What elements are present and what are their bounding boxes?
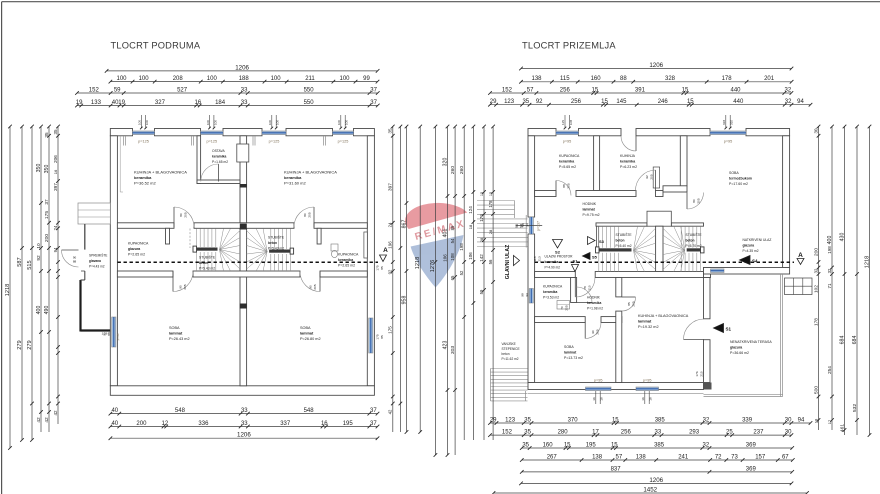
svg-text:beton: beton	[268, 241, 277, 245]
svg-text:178: 178	[722, 76, 733, 82]
svg-text:188: 188	[239, 76, 250, 82]
svg-text:256: 256	[560, 87, 571, 93]
svg-text:490: 490	[44, 306, 50, 315]
svg-text:123: 123	[505, 417, 516, 423]
svg-text:200: 200	[136, 421, 147, 427]
svg-text:p=125: p=125	[138, 140, 149, 144]
svg-text:260: 260	[450, 166, 456, 175]
svg-text:138: 138	[592, 454, 603, 460]
svg-text:glazura: glazura	[128, 247, 140, 251]
svg-text:100: 100	[268, 120, 272, 125]
svg-text:184: 184	[215, 100, 226, 106]
svg-text:15: 15	[611, 442, 618, 448]
svg-text:175: 175	[388, 326, 393, 334]
svg-text:100: 100	[206, 120, 210, 125]
svg-text:98: 98	[521, 293, 525, 297]
svg-text:400: 400	[36, 306, 42, 315]
svg-text:P=31.60 m2: P=31.60 m2	[284, 181, 306, 186]
svg-text:beton: beton	[616, 239, 625, 243]
svg-text:100: 100	[337, 120, 341, 125]
svg-text:80: 80	[692, 199, 696, 203]
svg-text:350: 350	[36, 164, 42, 173]
svg-text:370: 370	[568, 417, 579, 423]
svg-text:196: 196	[388, 241, 393, 249]
svg-text:59: 59	[479, 289, 484, 294]
svg-text:108: 108	[450, 253, 455, 261]
svg-text:33: 33	[241, 87, 248, 93]
svg-text:260: 260	[459, 166, 465, 175]
svg-text:p=125: p=125	[338, 140, 349, 144]
svg-text:59: 59	[114, 87, 121, 93]
svg-text:256: 256	[571, 99, 582, 105]
svg-text:205: 205	[650, 174, 654, 179]
svg-text:32: 32	[813, 268, 818, 273]
svg-text:133: 133	[91, 100, 102, 106]
svg-text:P=5.65 m2: P=5.65 m2	[559, 165, 576, 169]
svg-text:100: 100	[145, 120, 149, 125]
svg-text:90: 90	[103, 332, 107, 336]
svg-text:35: 35	[522, 442, 529, 448]
svg-text:201: 201	[764, 76, 775, 82]
svg-text:1218: 1218	[5, 284, 11, 297]
svg-text:100: 100	[339, 76, 350, 82]
svg-text:267: 267	[547, 454, 558, 460]
svg-text:laminat: laminat	[638, 320, 652, 324]
svg-text:94: 94	[797, 99, 804, 105]
svg-text:205: 205	[308, 212, 312, 217]
svg-text:33: 33	[241, 100, 248, 106]
svg-text:88: 88	[562, 184, 566, 188]
svg-text:18: 18	[468, 224, 473, 229]
svg-text:423: 423	[442, 341, 448, 350]
svg-text:15: 15	[564, 442, 571, 448]
svg-text:430: 430	[839, 233, 845, 242]
svg-text:35: 35	[524, 417, 531, 423]
svg-text:336: 336	[198, 421, 209, 427]
svg-text:15: 15	[601, 99, 608, 105]
svg-text:P=9.75 m2: P=9.75 m2	[583, 213, 600, 217]
svg-text:SPREMIŠTE: SPREMIŠTE	[89, 253, 107, 258]
svg-text:176: 176	[479, 214, 484, 222]
svg-text:KUPAONICA: KUPAONICA	[128, 242, 149, 246]
svg-text:205: 205	[596, 329, 600, 334]
svg-text:KUHINJA + BLAGOVAONICA: KUHINJA + BLAGOVAONICA	[284, 170, 337, 175]
svg-text:328: 328	[665, 76, 676, 82]
svg-text:42: 42	[44, 417, 50, 423]
svg-text:102: 102	[813, 285, 819, 293]
svg-text:213: 213	[537, 256, 541, 261]
svg-text:160: 160	[543, 442, 554, 448]
svg-text:NATKRIVENI ULAZ: NATKRIVENI ULAZ	[743, 238, 772, 242]
svg-text:30: 30	[785, 417, 792, 423]
svg-text:24: 24	[53, 225, 58, 230]
svg-text:279: 279	[17, 340, 23, 349]
svg-text:100: 100	[207, 76, 218, 82]
svg-text:SOBA: SOBA	[169, 326, 180, 330]
svg-text:527: 527	[177, 87, 188, 93]
svg-text:515: 515	[27, 260, 33, 269]
svg-text:205: 205	[184, 212, 188, 217]
svg-text:33: 33	[655, 430, 662, 436]
svg-text:laminat: laminat	[583, 208, 596, 212]
svg-text:beton: beton	[686, 239, 695, 243]
svg-text:1218: 1218	[864, 256, 870, 269]
svg-text:29: 29	[490, 417, 497, 423]
svg-text:200: 200	[813, 248, 819, 257]
svg-text:A: A	[798, 252, 803, 259]
svg-text:keramika: keramika	[559, 160, 574, 164]
svg-text:18: 18	[813, 418, 818, 423]
svg-text:25: 25	[726, 430, 733, 436]
svg-text:S1: S1	[726, 327, 732, 332]
svg-text:124: 124	[468, 206, 473, 214]
svg-text:16: 16	[321, 421, 328, 427]
svg-text:90: 90	[591, 330, 595, 334]
svg-text:100: 100	[276, 120, 280, 125]
svg-text:108: 108	[569, 120, 573, 125]
svg-text:339: 339	[742, 417, 753, 423]
svg-text:100: 100	[138, 120, 142, 125]
svg-text:19: 19	[118, 100, 125, 106]
svg-text:1206: 1206	[237, 432, 251, 439]
svg-text:keramika: keramika	[587, 301, 601, 305]
svg-text:205: 205	[632, 301, 636, 306]
svg-text:461: 461	[839, 424, 845, 433]
svg-text:P=4.43 m2: P=4.43 m2	[89, 265, 105, 269]
svg-text:246: 246	[658, 99, 669, 105]
svg-text:401: 401	[442, 229, 448, 238]
svg-text:65: 65	[450, 275, 455, 280]
svg-text:175: 175	[44, 211, 50, 220]
svg-text:HODNIK: HODNIK	[583, 202, 597, 206]
svg-text:P=26.80 m2: P=26.80 m2	[300, 337, 321, 341]
svg-text:205: 205	[313, 284, 317, 289]
svg-text:54: 54	[450, 238, 455, 243]
svg-text:STUBIŠTE: STUBIŠTE	[268, 235, 285, 240]
svg-text:glavana: glavana	[89, 259, 101, 263]
svg-text:keramika: keramika	[212, 155, 226, 159]
svg-text:205: 205	[697, 198, 701, 203]
svg-text:550: 550	[304, 100, 315, 106]
svg-text:279: 279	[27, 340, 33, 349]
svg-text:1206: 1206	[649, 477, 663, 484]
svg-text:laminat: laminat	[169, 332, 183, 336]
svg-text:NENATKRIVENA TERASA: NENATKRIVENA TERASA	[730, 340, 772, 344]
svg-text:S3: S3	[599, 239, 605, 244]
svg-text:198: 198	[827, 246, 832, 254]
svg-text:52: 52	[459, 270, 464, 275]
svg-text:206: 206	[53, 155, 59, 163]
svg-text:320: 320	[442, 158, 448, 167]
svg-text:35: 35	[522, 99, 529, 105]
svg-text:p=95: p=95	[643, 378, 652, 382]
svg-text:532: 532	[852, 404, 858, 413]
svg-text:400: 400	[827, 236, 833, 245]
svg-text:p=125: p=125	[206, 140, 217, 144]
svg-text:P=26.43 m2: P=26.43 m2	[169, 337, 190, 341]
svg-text:318: 318	[722, 120, 726, 125]
svg-text:35: 35	[524, 430, 531, 436]
svg-text:1276: 1276	[430, 260, 436, 273]
svg-text:397: 397	[53, 183, 59, 191]
svg-text:P=1.65 m2: P=1.65 m2	[212, 160, 228, 164]
svg-text:33: 33	[241, 421, 248, 427]
svg-text:keramika: keramika	[284, 175, 302, 180]
svg-text:78: 78	[583, 286, 587, 290]
svg-text:98: 98	[515, 224, 519, 228]
svg-text:67: 67	[782, 454, 789, 460]
svg-text:16: 16	[641, 397, 645, 401]
svg-text:550: 550	[304, 87, 315, 93]
svg-text:30: 30	[813, 128, 818, 134]
svg-text:118: 118	[533, 256, 537, 261]
svg-text:200: 200	[44, 234, 50, 243]
svg-text:OSTAVA: OSTAVA	[212, 149, 225, 153]
svg-text:280: 280	[558, 430, 569, 436]
svg-text:28: 28	[479, 237, 484, 242]
svg-text:keramika: keramika	[338, 258, 353, 262]
svg-text:254: 254	[827, 366, 833, 374]
svg-text:STUBIŠTE: STUBIŠTE	[686, 232, 703, 237]
svg-text:32: 32	[703, 442, 710, 448]
svg-text:SOBA: SOBA	[729, 171, 739, 175]
svg-text:391: 391	[635, 87, 646, 93]
svg-text:STUBIŠTE: STUBIŠTE	[616, 232, 633, 237]
svg-text:837: 837	[611, 466, 622, 472]
svg-text:laminat: laminat	[564, 351, 577, 355]
svg-text:19: 19	[76, 100, 83, 106]
svg-text:VANJSKE: VANJSKE	[502, 342, 516, 346]
svg-text:40: 40	[111, 421, 118, 427]
svg-text:S5: S5	[592, 255, 598, 260]
svg-text:laminat: laminat	[300, 332, 314, 336]
svg-text:145: 145	[616, 99, 627, 105]
svg-text:684: 684	[852, 336, 858, 345]
svg-text:16: 16	[592, 397, 596, 401]
svg-text:1206: 1206	[649, 62, 663, 69]
svg-text:80: 80	[179, 213, 183, 217]
svg-text:1452: 1452	[643, 486, 657, 493]
svg-text:152: 152	[89, 87, 100, 93]
svg-text:175: 175	[376, 334, 380, 339]
svg-text:15: 15	[489, 192, 493, 196]
svg-text:440: 440	[730, 87, 741, 93]
svg-text:P=3.53 m2: P=3.53 m2	[543, 296, 559, 300]
svg-text:176: 176	[695, 371, 699, 376]
svg-text:138: 138	[531, 76, 542, 82]
svg-text:57: 57	[616, 454, 623, 460]
svg-text:beton: beton	[502, 352, 510, 356]
svg-text:92: 92	[36, 255, 42, 261]
svg-text:208: 208	[173, 76, 184, 82]
svg-text:P=11.62 m2: P=11.62 m2	[502, 357, 519, 361]
svg-text:15: 15	[480, 192, 484, 196]
svg-text:92: 92	[388, 269, 393, 274]
svg-text:33: 33	[241, 408, 248, 414]
svg-text:16: 16	[600, 397, 604, 401]
svg-text:198: 198	[459, 243, 464, 251]
svg-text:369: 369	[746, 466, 757, 472]
svg-text:p=95: p=95	[563, 140, 572, 144]
svg-text:58: 58	[521, 223, 525, 227]
svg-text:100: 100	[116, 76, 127, 82]
svg-text:keramika: keramika	[545, 260, 559, 264]
svg-text:32: 32	[785, 87, 792, 93]
svg-text:178: 178	[488, 200, 493, 208]
svg-text:115: 115	[560, 76, 570, 82]
svg-text:p=137: p=137	[537, 221, 541, 231]
svg-text:37: 37	[370, 100, 377, 106]
svg-text:94: 94	[53, 247, 58, 252]
svg-text:keramika: keramika	[543, 290, 557, 294]
svg-text:94: 94	[798, 417, 805, 423]
svg-text:glazura: glazura	[730, 346, 742, 350]
svg-text:684: 684	[839, 336, 845, 345]
svg-text:80: 80	[303, 213, 307, 217]
svg-text:KUHINJA + BLAGOVAONICA: KUHINJA + BLAGOVAONICA	[134, 170, 187, 175]
svg-text:ULAZNI PROSTOR: ULAZNI PROSTOR	[545, 255, 574, 259]
svg-text:73: 73	[731, 454, 738, 460]
svg-text:P=17.60 m2: P=17.60 m2	[729, 182, 748, 186]
svg-text:17: 17	[827, 419, 832, 424]
svg-text:106: 106	[442, 254, 447, 262]
svg-text:88: 88	[620, 76, 627, 82]
svg-text:500: 500	[813, 386, 819, 395]
svg-text:369: 369	[746, 442, 757, 448]
svg-text:100: 100	[139, 76, 150, 82]
svg-text:237: 237	[753, 430, 764, 436]
svg-text:85: 85	[380, 335, 384, 339]
svg-text:S1: S1	[573, 259, 579, 264]
svg-text:211: 211	[305, 76, 315, 82]
svg-text:32: 32	[785, 99, 792, 105]
svg-text:175: 175	[376, 265, 380, 270]
svg-text:32: 32	[703, 417, 710, 423]
svg-text:KUHINJA + BLAGOVAONICA: KUHINJA + BLAGOVAONICA	[638, 314, 689, 318]
svg-text:440: 440	[733, 99, 744, 105]
svg-text:100: 100	[271, 76, 282, 82]
svg-text:P=36.52 m2: P=36.52 m2	[134, 181, 156, 186]
svg-text:12: 12	[162, 421, 169, 427]
svg-text:termoźbukom: termoźbukom	[729, 177, 752, 181]
svg-text:337: 337	[280, 421, 291, 427]
svg-text:glazura: glazura	[743, 244, 755, 248]
svg-text:210: 210	[588, 285, 592, 290]
svg-text:32: 32	[827, 268, 832, 273]
svg-text:867: 867	[401, 220, 407, 229]
svg-text:15: 15	[592, 87, 599, 93]
svg-text:35: 35	[53, 129, 58, 135]
svg-text:37: 37	[370, 421, 377, 427]
svg-text:99: 99	[363, 76, 370, 82]
svg-text:10: 10	[36, 243, 42, 249]
svg-text:16: 16	[649, 397, 653, 401]
svg-text:303: 303	[450, 346, 456, 355]
svg-text:p=125: p=125	[269, 140, 280, 144]
svg-text:241: 241	[678, 454, 689, 460]
svg-text:88: 88	[73, 260, 77, 264]
svg-text:35: 35	[44, 132, 50, 138]
svg-text:57: 57	[527, 87, 534, 93]
svg-text:1218: 1218	[415, 257, 421, 270]
svg-text:210: 210	[700, 371, 704, 376]
svg-text:85: 85	[380, 266, 384, 270]
svg-text:56: 56	[488, 259, 493, 264]
svg-text:89: 89	[450, 225, 455, 230]
svg-text:p=60: p=60	[116, 333, 120, 340]
svg-text:548: 548	[175, 408, 186, 414]
svg-text:p=95: p=95	[724, 140, 733, 144]
svg-text:42: 42	[388, 409, 393, 414]
svg-text:p=95: p=95	[594, 378, 603, 382]
svg-text:40: 40	[111, 408, 118, 414]
svg-text:327: 327	[155, 100, 166, 106]
svg-text:548: 548	[304, 408, 315, 414]
svg-text:15: 15	[612, 417, 619, 423]
svg-text:123: 123	[504, 99, 515, 105]
svg-text:GLAVNI ULAZ: GLAVNI ULAZ	[505, 244, 511, 279]
svg-text:94: 94	[526, 223, 530, 227]
svg-text:P=1.98 m2: P=1.98 m2	[587, 307, 603, 311]
svg-text:P=2.65 m2: P=2.65 m2	[338, 264, 355, 268]
svg-text:P=13.73 m2: P=13.73 m2	[564, 356, 583, 360]
svg-text:29: 29	[490, 99, 497, 105]
svg-text:42: 42	[53, 410, 58, 416]
svg-text:310: 310	[730, 120, 734, 125]
svg-text:STUBIŠTE: STUBIŠTE	[199, 255, 216, 260]
svg-text:100: 100	[213, 120, 217, 125]
svg-text:152: 152	[502, 430, 513, 436]
svg-text:P=5.70 m2: P=5.70 m2	[686, 244, 702, 248]
svg-text:P=5.43 m2: P=5.43 m2	[268, 247, 284, 251]
svg-text:24: 24	[388, 222, 393, 227]
svg-text:385: 385	[655, 417, 666, 423]
svg-text:P=4.90 m2: P=4.90 m2	[545, 266, 561, 270]
svg-text:350: 350	[44, 165, 50, 174]
svg-text:205: 205	[183, 284, 187, 289]
svg-text:28: 28	[488, 229, 493, 234]
svg-text:205: 205	[565, 305, 569, 310]
svg-text:94: 94	[525, 293, 529, 297]
svg-text:KUPAONICA: KUPAONICA	[338, 253, 359, 257]
svg-text:195: 195	[586, 442, 597, 448]
svg-text:90: 90	[179, 285, 183, 289]
svg-text:30: 30	[785, 430, 792, 436]
svg-text:keramika: keramika	[134, 175, 152, 180]
svg-text:16: 16	[53, 169, 58, 174]
svg-text:P=2.65 m2: P=2.65 m2	[128, 253, 145, 257]
svg-text:37: 37	[370, 408, 377, 414]
svg-text:88: 88	[107, 332, 111, 336]
svg-text:37: 37	[370, 87, 377, 93]
svg-text:15: 15	[682, 87, 689, 93]
svg-text:1206: 1206	[235, 64, 249, 71]
svg-text:TLOCRT PRIZEMLJA: TLOCRT PRIZEMLJA	[522, 41, 616, 51]
svg-text:160: 160	[591, 76, 602, 82]
svg-text:35: 35	[388, 128, 393, 134]
svg-text:157: 157	[755, 454, 766, 460]
svg-text:71: 71	[827, 283, 832, 289]
svg-text:SOBA: SOBA	[564, 345, 574, 349]
svg-text:293: 293	[689, 430, 700, 436]
svg-text:37: 37	[44, 199, 50, 205]
svg-text:152: 152	[502, 87, 513, 93]
svg-text:P=4.35 m2: P=4.35 m2	[743, 249, 759, 253]
svg-text:115: 115	[561, 120, 565, 125]
svg-text:92: 92	[645, 175, 649, 179]
svg-text:178: 178	[813, 318, 819, 326]
svg-text:100: 100	[345, 120, 349, 125]
